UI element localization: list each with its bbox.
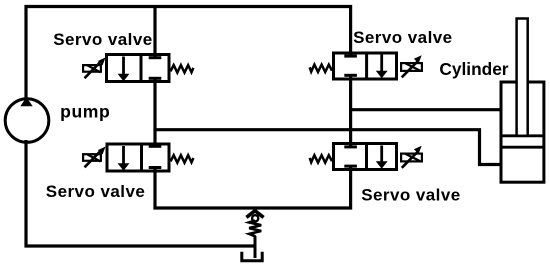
cylinder body [501, 82, 544, 182]
svg-text:pump: pump [60, 101, 110, 121]
wire: top supply bus [25, 5, 353, 8]
label: Servo valve (top-right) [353, 28, 452, 47]
spring of V1 [171, 65, 194, 73]
relief valve seat (chevron) [246, 211, 263, 218]
wire: pump outlet riser [24, 5, 27, 100]
svg-text:Cylinder: Cylinder [439, 59, 508, 79]
label: Servo valve (bottom-left) [46, 182, 145, 201]
label: Cylinder [439, 59, 508, 79]
svg-text:Servo valve: Servo valve [53, 30, 152, 49]
valve V3 (bottom-left servo valve) [107, 144, 169, 171]
pump P1 [5, 97, 49, 142]
wire: drop to valve V2 inlet [349, 5, 352, 56]
spring of V2 [310, 65, 332, 72]
label: Servo valve (top-left) [53, 30, 152, 49]
valve V2 (top-right servo valve) [334, 53, 397, 79]
relief valve stem from lower bus [254, 207, 257, 213]
svg-text:Servo valve: Servo valve [46, 182, 145, 201]
wire: drop to valve V1 inlet [153, 5, 156, 58]
spring of V4 [310, 155, 332, 162]
tank [242, 252, 262, 261]
svg-text:Servo valve: Servo valve [361, 186, 460, 205]
wire: middle bus to cylinder cap end [154, 130, 502, 165]
wire: relief valve to tank [254, 236, 257, 258]
relief valve ball [252, 215, 258, 221]
wire: V2 outlet to V4 inlet (through junctions) [349, 75, 352, 147]
spring of V3 [171, 155, 194, 163]
proportional solenoid of V3 [83, 147, 106, 168]
wire: V1 outlet to V3 inlet (through middle bus) [153, 78, 156, 146]
proportional solenoid of V1 [83, 57, 106, 78]
label: pump [60, 101, 110, 121]
valve V4 (bottom-right servo valve) [334, 144, 397, 170]
label: Servo valve (bottom-right) [361, 186, 460, 205]
valve V1 (top-left servo valve) [107, 55, 170, 82]
cylinder piston rod [517, 19, 528, 136]
proportional solenoid of V4 [401, 146, 422, 168]
wire: pump return run (left vertical + bottom to relief valve) [26, 140, 255, 246]
relief valve spring [249, 221, 261, 237]
wire: lower bus connecting V3 and V4 outlets [155, 166, 351, 208]
wire: rod-end line to cylinder [349, 108, 502, 111]
svg-text:Servo valve: Servo valve [353, 28, 452, 47]
proportional solenoid of V2 [401, 55, 422, 77]
